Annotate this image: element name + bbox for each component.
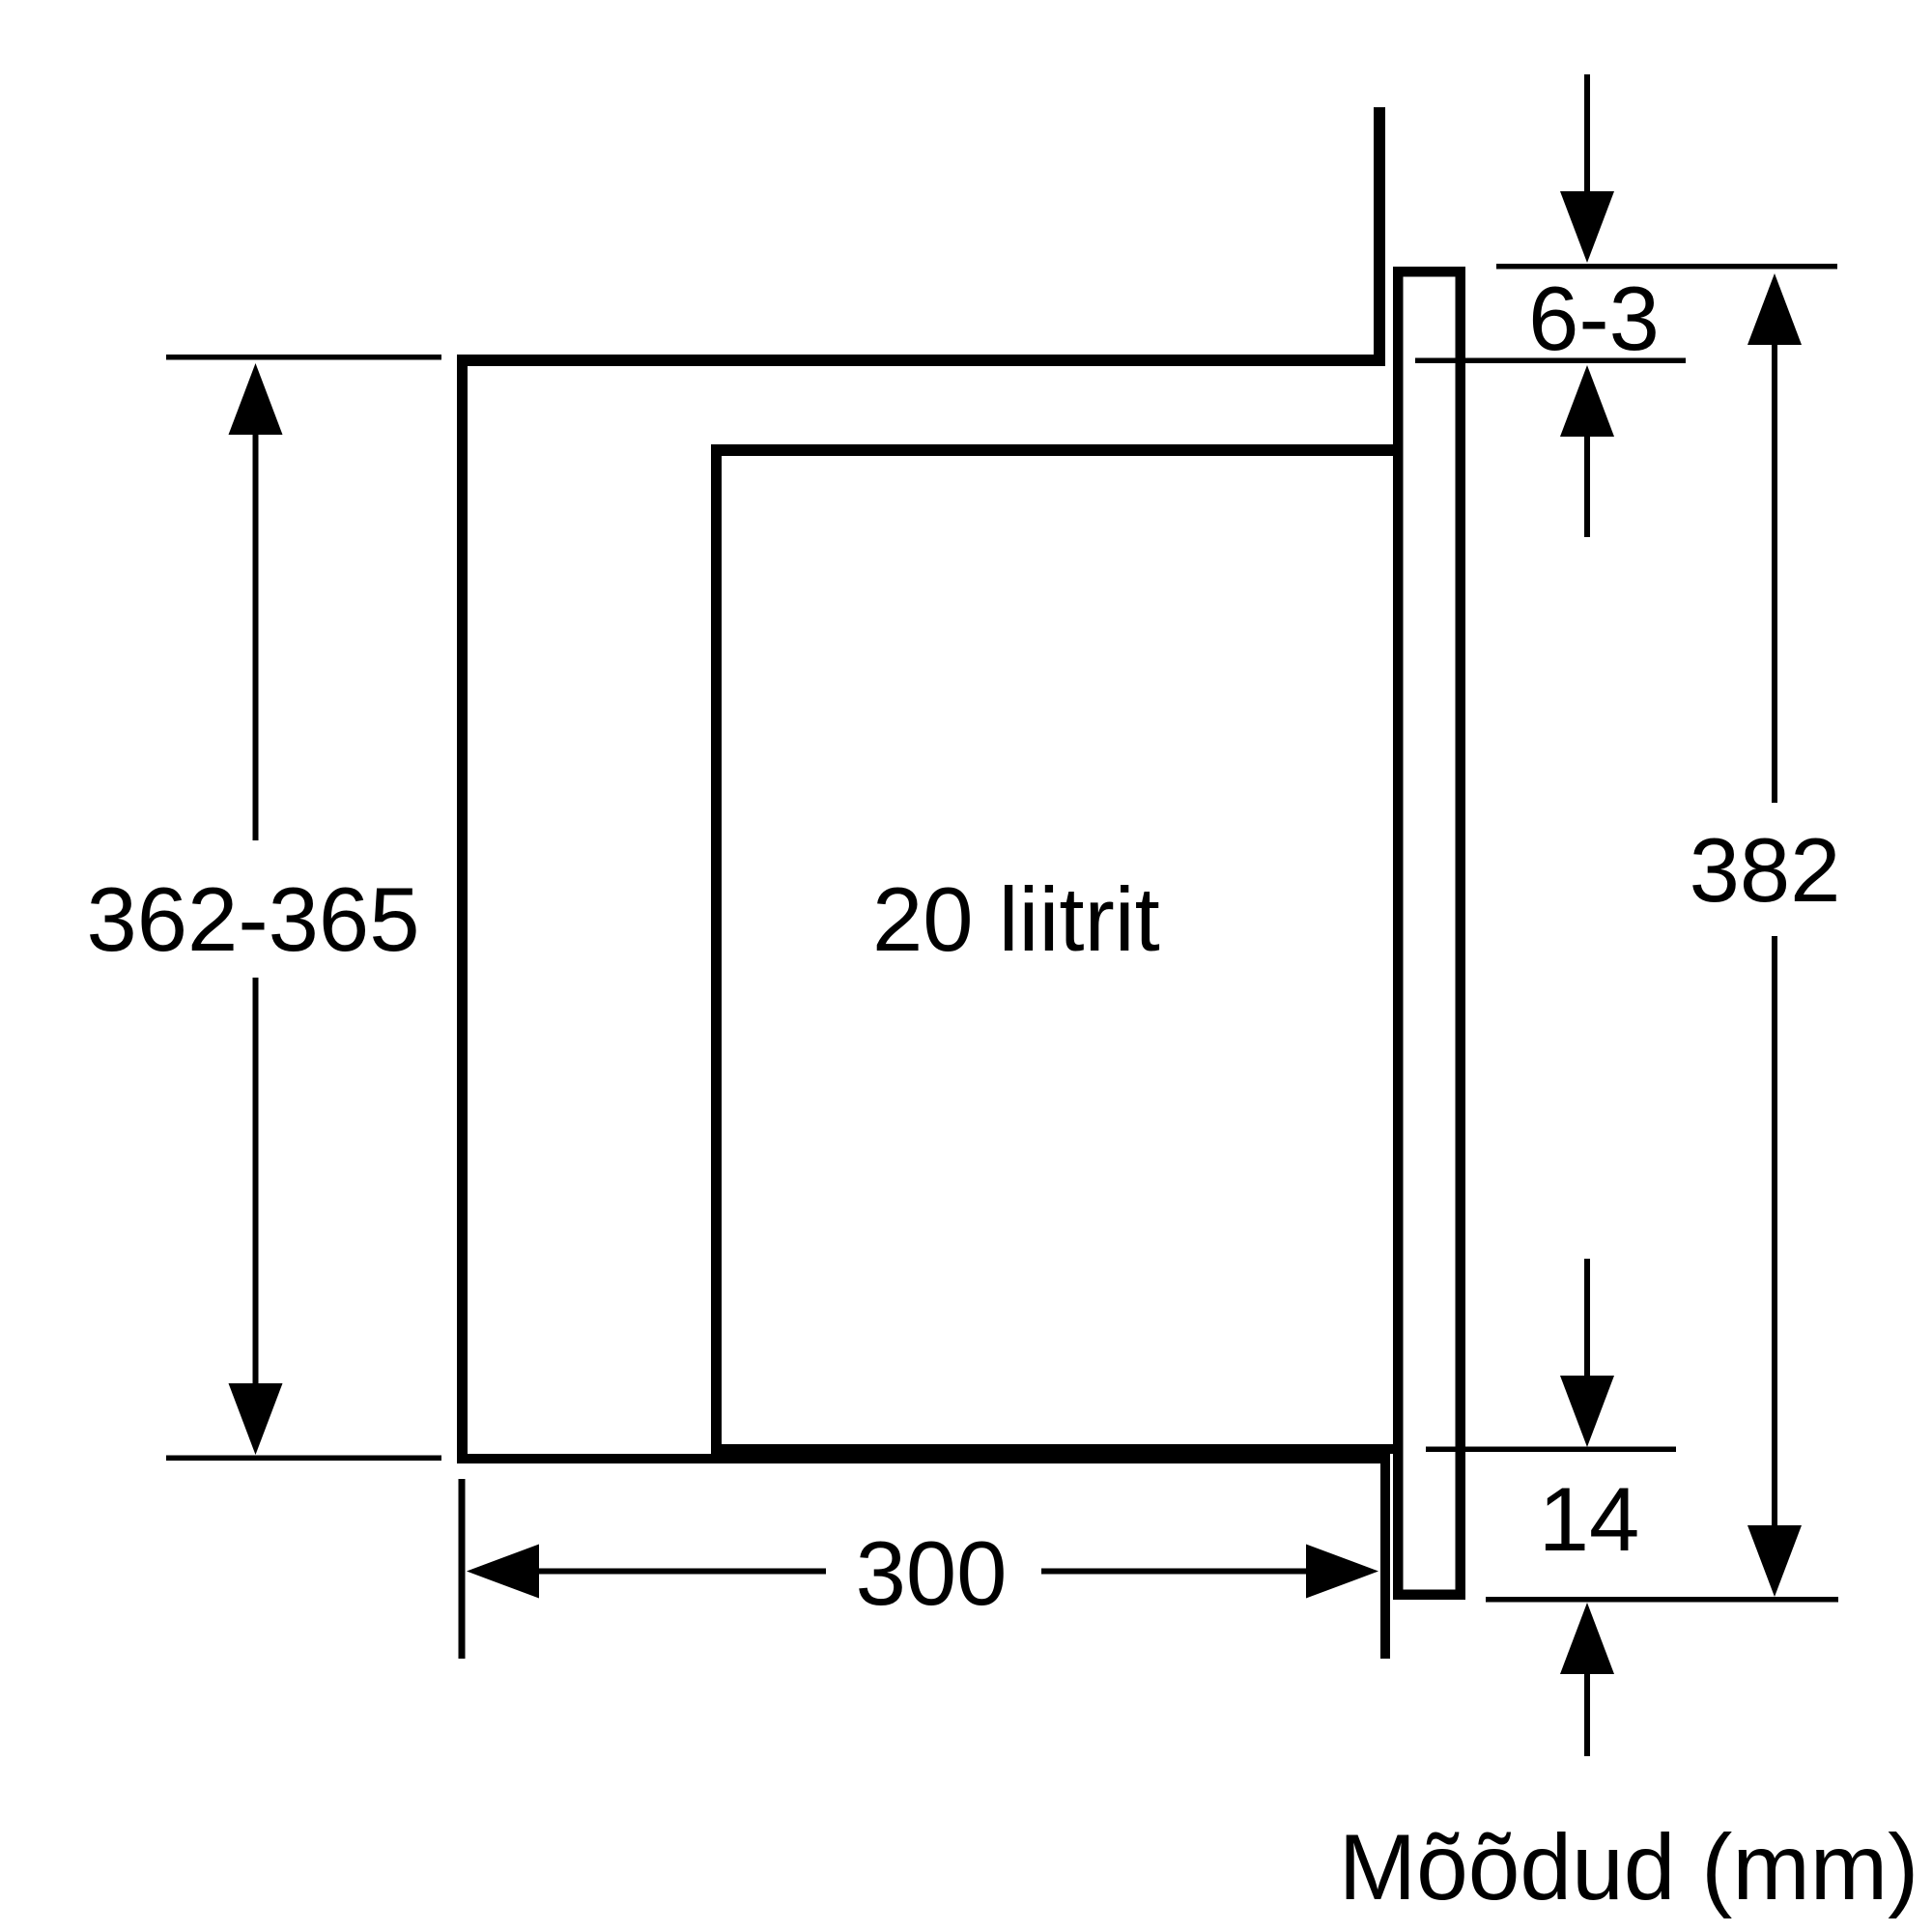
svg-text:362-365: 362-365: [87, 868, 420, 970]
dim 300 left arrow: [467, 1545, 539, 1599]
svg-text:Mõõdud (mm): Mõõdud (mm): [1339, 1816, 1919, 1919]
niche top line: [457, 355, 1385, 366]
oven cavity bottom line: [711, 1444, 1398, 1454]
oven cavity left line: [711, 444, 722, 1454]
dim 362-365 bottom reference line: [166, 1456, 441, 1462]
cabinet front line below niche: [1380, 1455, 1390, 1659]
svg-text:300: 300: [856, 1522, 1008, 1624]
niche left line: [457, 355, 468, 1463]
dim 300 left extension line: [459, 1479, 466, 1659]
dim 14 top reference line: [1426, 1447, 1676, 1453]
dim 6-3 lower pointer: [1560, 365, 1614, 437]
dim 6-3 bottom reference line: [1415, 358, 1686, 364]
dim 14 upper pointer: [1584, 1259, 1590, 1376]
oven cavity top line: [711, 444, 1398, 456]
dim 382 line upper segment with up arrow: [1747, 273, 1802, 345]
dim 14 bottom reference line: [1486, 1597, 1838, 1603]
dim 362-365 lower arrow: [253, 978, 259, 1384]
svg-text:14: 14: [1539, 1468, 1640, 1570]
dim 362-365 top reference line: [166, 355, 441, 360]
niche bottom line: [457, 1454, 1390, 1463]
oven front panel: [1398, 271, 1461, 1595]
dim 382 line lower segment with down arrow: [1772, 936, 1777, 1525]
dim 6-3 upper pointer: [1584, 74, 1590, 192]
dim 6-3 top reference line: [1496, 264, 1837, 270]
svg-text:20 liitrit: 20 liitrit: [872, 868, 1160, 970]
dim 362-365 upper arrow: [229, 363, 283, 435]
svg-text:6-3: 6-3: [1528, 268, 1660, 369]
dim 14 lower pointer: [1560, 1603, 1614, 1674]
cabinet front line above niche: [1374, 107, 1385, 366]
dim 300 right arrow: [1041, 1569, 1306, 1575]
svg-text:382: 382: [1690, 819, 1841, 921]
